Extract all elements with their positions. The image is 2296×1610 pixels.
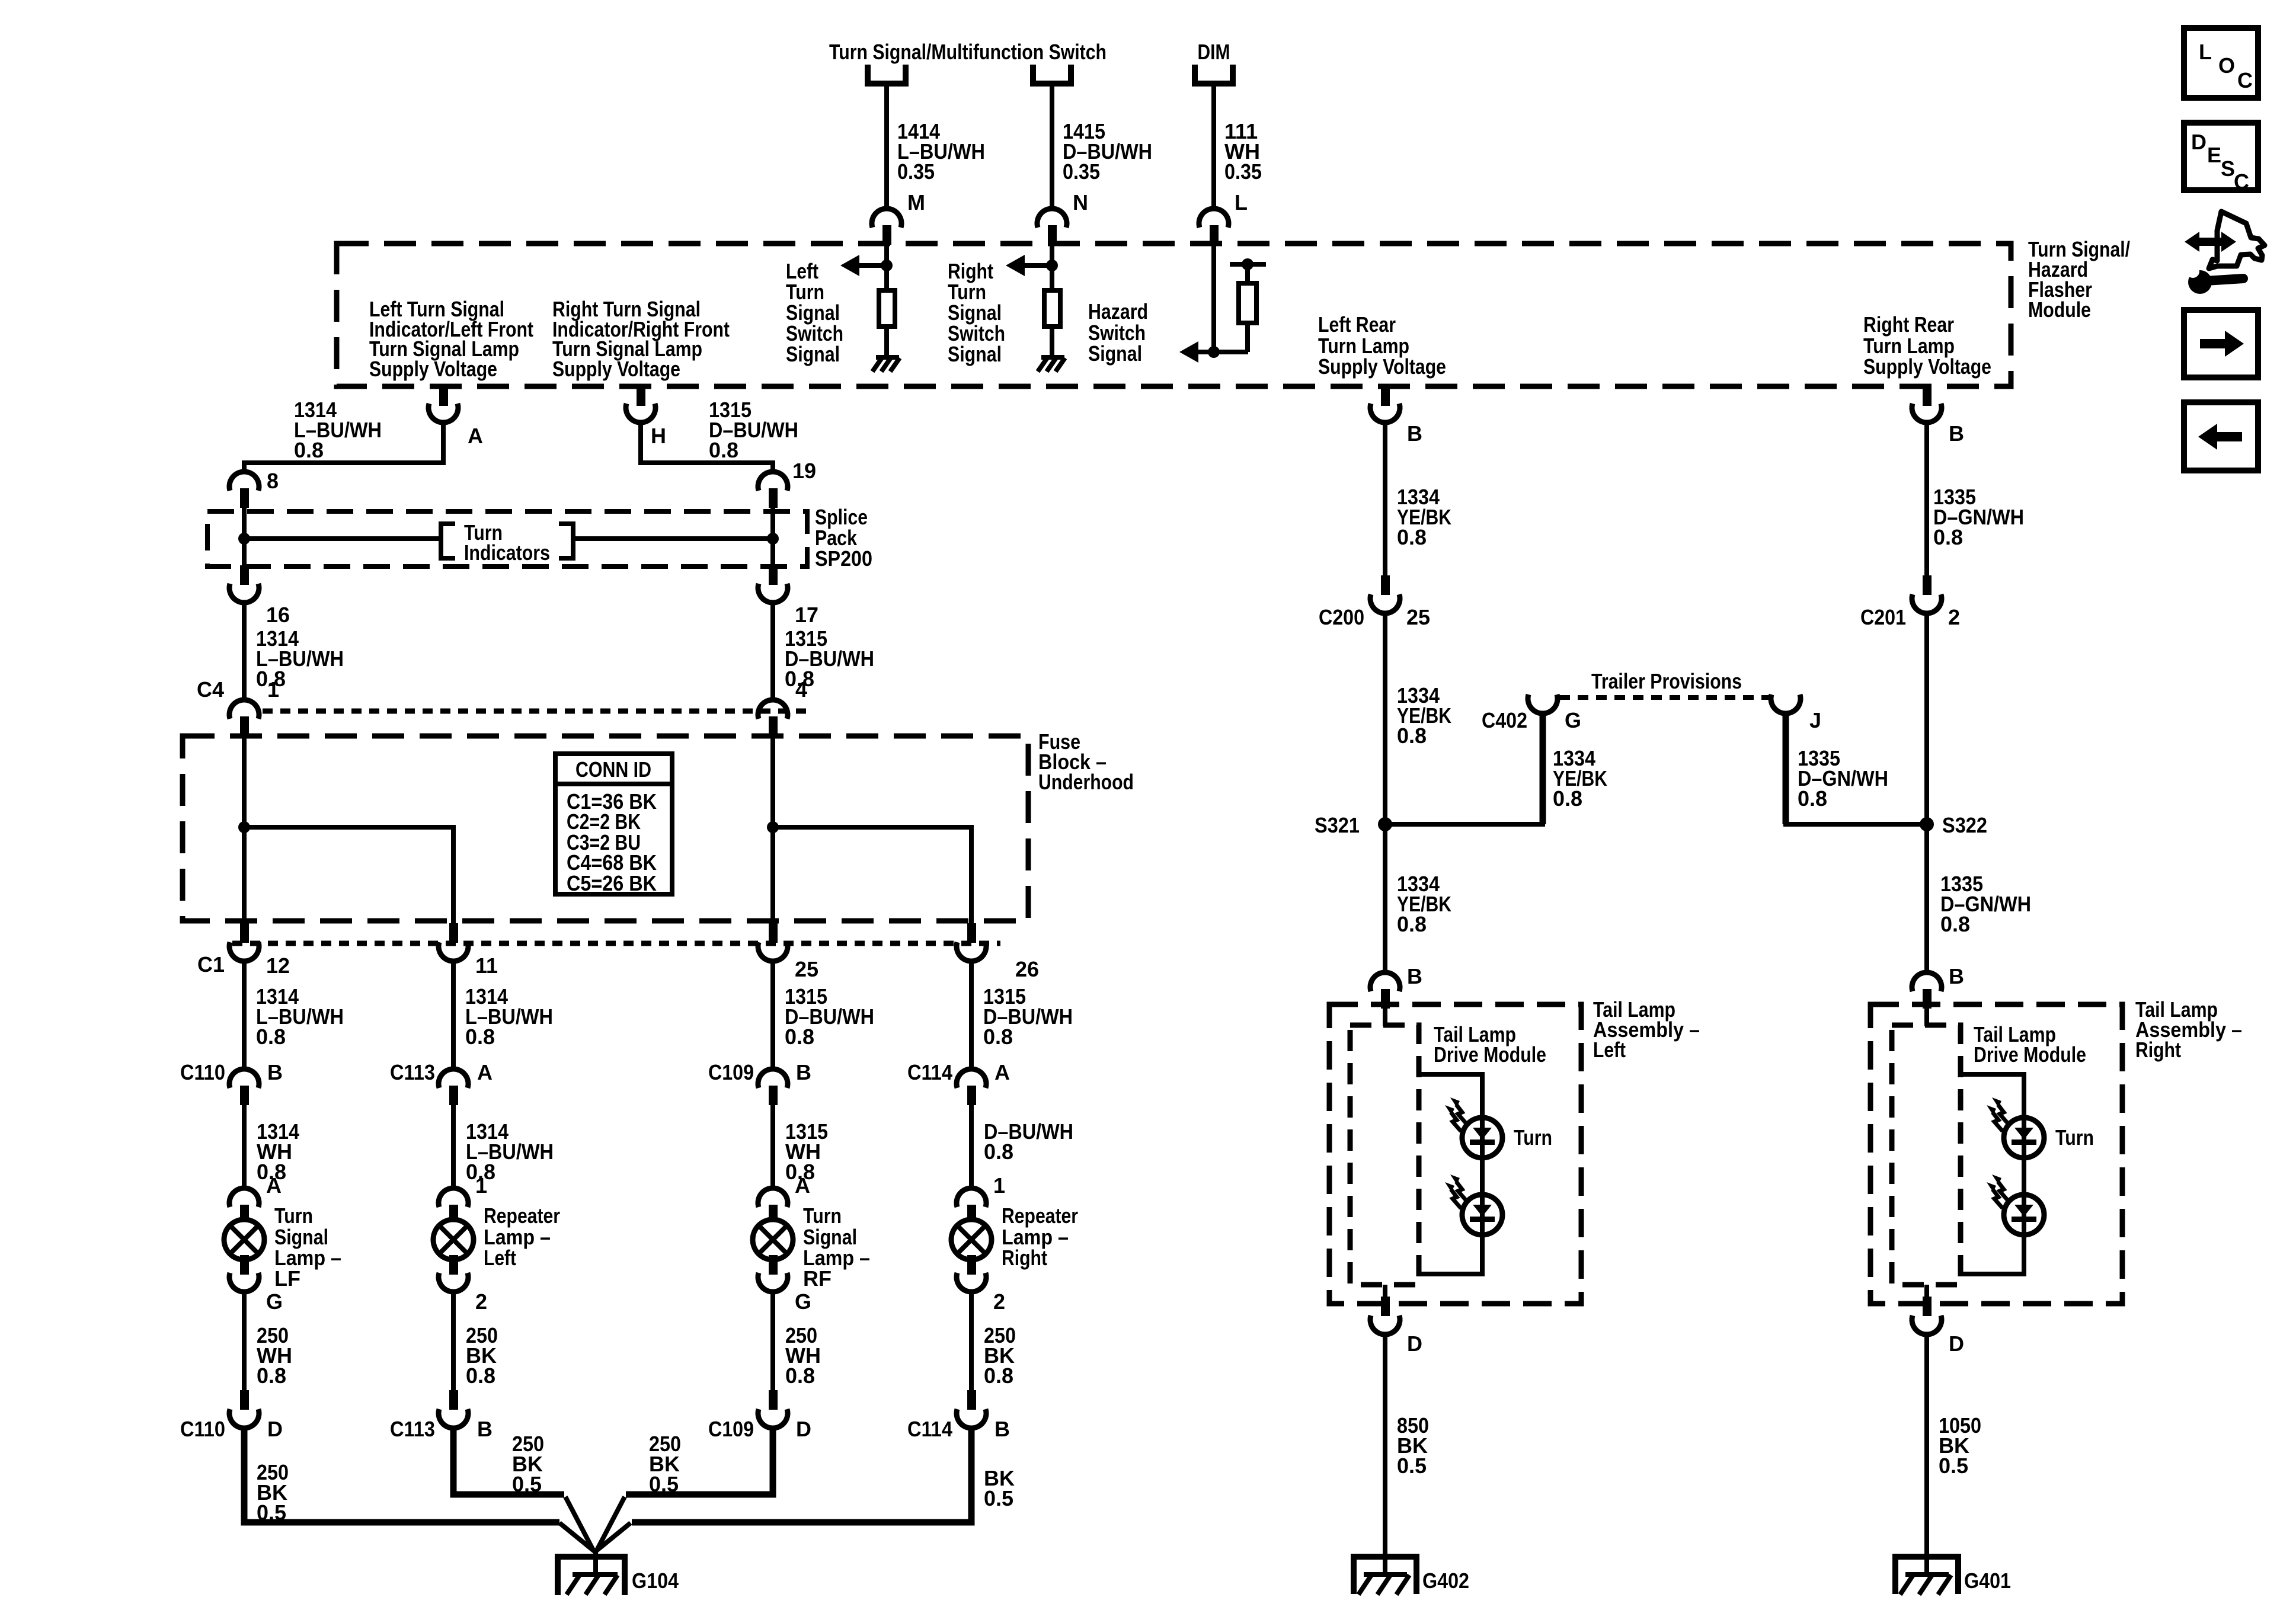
svg-text:Hazard: Hazard xyxy=(1088,299,1148,324)
svg-text:G: G xyxy=(1565,708,1581,732)
svg-text:D: D xyxy=(2191,130,2207,154)
node fuse left branch xyxy=(238,821,250,833)
svg-text:0.8: 0.8 xyxy=(257,1363,286,1388)
lamp connector (LF top) xyxy=(229,1188,259,1224)
wire junction to resistor xyxy=(1245,264,1250,283)
tail lamp assembly left box (dashed) xyxy=(1329,1004,1581,1304)
svg-text:A: A xyxy=(468,424,483,448)
node splice right xyxy=(767,533,779,545)
value label circuit 1314 L-BU/WH 0.8 xyxy=(294,398,382,462)
connector C4 pin 4 xyxy=(758,700,788,736)
svg-text:0.8: 0.8 xyxy=(1798,786,1827,811)
label Hazard Switch Signal xyxy=(1088,299,1148,366)
wire between LEDs (right) xyxy=(2022,1158,2026,1195)
icon DESC box xyxy=(2184,123,2258,194)
wire left into splice xyxy=(242,507,247,565)
icon arrow left box xyxy=(2184,402,2258,470)
svg-text:B: B xyxy=(1407,421,1422,446)
svg-text:Right: Right xyxy=(2135,1038,2181,1062)
wire C4 pin1 through fuse block to C1 pin 12 xyxy=(242,735,247,924)
value label circuit 1334 YE/BK 0.8 xyxy=(1397,485,1451,549)
svg-text:26: 26 xyxy=(1015,957,1039,981)
value label circuit 1334 YE/BK 0.8 below S321 xyxy=(1397,872,1451,936)
svg-text:C114: C114 xyxy=(907,1060,952,1084)
svg-text:Signal: Signal xyxy=(948,342,1002,366)
node S322 xyxy=(1920,817,1934,831)
wire 26 to C114 A xyxy=(969,959,974,1070)
svg-text:1: 1 xyxy=(475,1173,487,1198)
lamp connector (repeater left bottom) xyxy=(439,1255,468,1292)
LED turn lamp left 2 xyxy=(1445,1174,1502,1235)
wire 1335 to C201 xyxy=(1924,421,1929,577)
wire LED string back to drive module (right) xyxy=(1961,1235,2024,1274)
label Fuse Block - Underhood xyxy=(1038,729,1134,794)
svg-text:4: 4 xyxy=(795,677,807,702)
connector D (tail lamp left) xyxy=(1370,1297,1400,1334)
svg-text:A: A xyxy=(266,1173,282,1198)
wire trailer provisions (dashed) xyxy=(1559,695,1769,700)
label Turn Indicators xyxy=(464,520,550,565)
connector C114 pin B xyxy=(957,1390,986,1428)
connector C109 pin B xyxy=(758,1069,788,1105)
wire repeater left to C113 B xyxy=(451,1290,456,1391)
wire B into drive module (right) xyxy=(1924,1007,1929,1026)
svg-text:G: G xyxy=(266,1289,283,1314)
connector C1 pin 26 xyxy=(957,923,986,961)
svg-text:C114: C114 xyxy=(907,1417,952,1441)
connector row C1 dotted line xyxy=(232,941,1000,946)
connector C201 pin 2 xyxy=(1912,575,1942,613)
wire 1315 from H to connector 19 xyxy=(641,421,773,472)
connector B (module output, right rear) xyxy=(1912,386,1942,422)
svg-text:CONN ID: CONN ID xyxy=(575,757,651,782)
svg-text:O: O xyxy=(2218,53,2235,78)
svg-text:L: L xyxy=(2199,40,2212,64)
svg-text:DIM: DIM xyxy=(1198,40,1230,64)
svg-text:Module: Module xyxy=(2028,297,2091,322)
label Left Turn Signal Indicator/Left Front Turn Signal Lamp Supply Voltage xyxy=(369,297,533,381)
value label circuit 1314 L-BU/WH 0.8 xyxy=(466,1119,554,1184)
svg-text:Left Rear: Left Rear xyxy=(1318,312,1396,337)
svg-text:0.35: 0.35 xyxy=(897,159,935,184)
connector 16 xyxy=(229,565,259,603)
value label circuit 1314 WH 0.8 xyxy=(257,1119,299,1184)
svg-text:C: C xyxy=(2237,68,2253,92)
wire C109 D to ground G104 xyxy=(597,1426,773,1550)
fuse block box Underhood (dashed) xyxy=(183,736,1028,921)
svg-text:Turn Signal/Multifunction Swit: Turn Signal/Multifunction Switch xyxy=(829,40,1107,64)
svg-text:C4: C4 xyxy=(197,677,224,702)
svg-text:Repeater: Repeater xyxy=(1002,1204,1078,1228)
connector H (module output, right front) xyxy=(626,386,655,422)
svg-text:Trailer Provisions: Trailer Provisions xyxy=(1591,669,1742,693)
svg-text:0.8: 0.8 xyxy=(1933,525,1963,549)
connector C110 pin B xyxy=(229,1069,259,1105)
value label circuit 1314 L-BU/WH 0.8 xyxy=(465,984,553,1049)
connector C4 pin 1 xyxy=(229,700,259,736)
svg-text:0.8: 0.8 xyxy=(1553,786,1582,811)
svg-text:Drive Module: Drive Module xyxy=(1974,1042,2086,1067)
value label circuit D-BU/WH 0.8 xyxy=(984,1119,1073,1164)
value label circuit 1315 D-BU/WH 0.8 xyxy=(785,984,874,1049)
svg-text:0.5: 0.5 xyxy=(1939,1454,1968,1478)
value label circuit 1414 L-BU/WH 0.35 xyxy=(897,119,985,184)
svg-text:D: D xyxy=(267,1417,283,1441)
node junction hazard xyxy=(1208,346,1220,358)
wire drive module to LED string (right) xyxy=(1961,1074,2024,1118)
svg-text:C: C xyxy=(2234,169,2249,194)
wire J to S322 xyxy=(1783,712,1927,824)
node fuse right branch xyxy=(767,821,779,833)
svg-text:A: A xyxy=(994,1060,1010,1084)
svg-text:0.35: 0.35 xyxy=(1224,159,1262,184)
svg-text:E: E xyxy=(2207,143,2221,167)
icon wrench xyxy=(2180,265,2243,294)
svg-text:Repeater: Repeater xyxy=(484,1204,560,1228)
svg-text:C201: C201 xyxy=(1860,605,1906,629)
value label circuit 250 BK 0.5 (repeater left ground wire) xyxy=(512,1432,544,1496)
svg-text:0.8: 0.8 xyxy=(1397,724,1427,748)
svg-text:Signal: Signal xyxy=(786,342,840,366)
connector B (module output, left rear) xyxy=(1370,386,1400,422)
svg-text:2: 2 xyxy=(993,1289,1005,1314)
connector C114 pin A xyxy=(957,1069,986,1105)
value label circuit BK 0.5 (repeater right ground wire) xyxy=(984,1466,1015,1510)
wire branch to pin 11 xyxy=(244,827,453,924)
value label circuit 1315 D-BU/WH 0.8 xyxy=(785,626,874,691)
wire LED string back to drive module (left) xyxy=(1419,1235,1482,1274)
svg-text:0.8: 0.8 xyxy=(465,1025,495,1049)
wire repeater right to C114 B xyxy=(969,1290,974,1391)
svg-text:25: 25 xyxy=(795,957,818,981)
svg-text:0.8: 0.8 xyxy=(785,1363,815,1388)
connector M xyxy=(872,209,901,245)
wire 1414 from switch to connector M xyxy=(884,84,889,210)
svg-text:Right Rear: Right Rear xyxy=(1863,312,1954,337)
svg-text:S: S xyxy=(2221,156,2235,181)
connector 8 xyxy=(229,472,259,508)
wire resistor to ground xyxy=(1050,327,1054,358)
ground G402 xyxy=(1354,1547,1416,1595)
wire drive module to connector D (left) xyxy=(1383,1285,1387,1299)
ground G104 xyxy=(558,1548,625,1595)
label Repeater Lamp - Left xyxy=(484,1204,560,1270)
svg-text:B: B xyxy=(796,1060,811,1084)
connector L xyxy=(1199,209,1229,245)
value label circuit 1335 D-GN/WH 0.8 xyxy=(1798,746,1888,811)
svg-text:B: B xyxy=(1949,964,1964,988)
label Right Turn Signal Indicator/Right Front Turn Signal Lamp Supply Voltage xyxy=(552,297,730,381)
wire C114 B to ground G104 xyxy=(596,1426,971,1551)
icon vehicle outline xyxy=(2209,212,2265,268)
LED turn lamp left 1 xyxy=(1445,1097,1502,1158)
value label circuit 1335 D-GN/WH 0.8 below S322 xyxy=(1940,872,2031,936)
svg-text:2: 2 xyxy=(475,1289,487,1314)
svg-text:Turn: Turn xyxy=(803,1204,842,1228)
wire C110 B to lamp LF xyxy=(242,1104,247,1190)
wire S321 to C402 G xyxy=(1385,712,1545,824)
icon LOC box xyxy=(2184,28,2258,98)
value label circuit 250 WH 0.8 xyxy=(257,1323,292,1388)
ground (module internal, left) xyxy=(872,357,900,372)
svg-text:0.8: 0.8 xyxy=(1397,525,1427,549)
wire right into splice xyxy=(770,507,775,565)
label Tail Lamp Assembly - Left xyxy=(1593,997,1700,1062)
svg-text:G401: G401 xyxy=(1964,1569,2011,1593)
svg-text:C110: C110 xyxy=(180,1417,225,1441)
wire C109 B to lamp RF xyxy=(770,1104,775,1190)
node junction on wire M xyxy=(881,260,893,271)
svg-text:B: B xyxy=(1407,964,1422,988)
wire 17 to C4 pin 4 xyxy=(770,601,775,701)
svg-text:Signal: Signal xyxy=(1088,341,1142,366)
lamp Turn Signal Lamp RF xyxy=(753,1219,793,1260)
svg-text:2: 2 xyxy=(1948,605,1960,629)
connector C402 pin G (trailer provisions) xyxy=(1528,694,1558,713)
wire lamp LF to C110 D xyxy=(242,1290,247,1391)
svg-text:C109: C109 xyxy=(708,1417,754,1441)
svg-text:Drive Module: Drive Module xyxy=(1434,1042,1546,1067)
label Tail Lamp Drive Module xyxy=(1434,1022,1546,1067)
value label circuit 1315 WH 0.8 xyxy=(785,1119,828,1184)
value label circuit 1334 YE/BK 0.8 xyxy=(1553,746,1607,811)
svg-text:0.8: 0.8 xyxy=(984,1140,1013,1164)
svg-text:Turn: Turn xyxy=(274,1204,313,1228)
wire drive module to connector D (right) xyxy=(1924,1285,1929,1299)
connector C200 pin 25 xyxy=(1370,575,1400,613)
svg-text:G: G xyxy=(795,1289,811,1314)
wire arrow hazard switch signal xyxy=(1179,341,1248,363)
LED turn lamp right 1 xyxy=(1987,1097,2044,1158)
LED turn lamp right 2 xyxy=(1987,1174,2044,1235)
wire B into drive module xyxy=(1383,1007,1387,1026)
wire left turn signal switch signal (inside module) xyxy=(884,245,889,290)
svg-text:Underhood: Underhood xyxy=(1038,770,1134,794)
wire C200 to S321 to tail lamp xyxy=(1383,611,1387,974)
connector C113 pin B xyxy=(439,1390,468,1428)
lamp Repeater Lamp Left xyxy=(433,1219,474,1260)
svg-text:Supply Voltage: Supply Voltage xyxy=(552,357,680,381)
svg-text:LF: LF xyxy=(274,1266,300,1291)
svg-text:Right: Right xyxy=(1002,1246,1047,1270)
wire 1334 to C200 xyxy=(1383,421,1387,577)
module box: Turn Signal/Hazard Flasher Module (dashed) xyxy=(337,244,2011,386)
wire 1314 from A to connector 8 xyxy=(244,421,443,472)
label Repeater Lamp - Right xyxy=(1002,1204,1078,1270)
svg-text:RF: RF xyxy=(803,1266,832,1291)
wire C110 D to ground G104 xyxy=(244,1426,594,1551)
value label circuit 1415 D-BU/WH 0.35 xyxy=(1063,119,1152,184)
label Right Turn Signal Switch Signal xyxy=(948,259,1005,366)
tail lamp assembly right box (dashed) xyxy=(1870,1004,2122,1304)
ground G401 xyxy=(1895,1547,1958,1595)
connector 17 xyxy=(758,565,788,603)
node S321 xyxy=(1378,817,1392,831)
label Splice Pack SP200 xyxy=(815,505,872,571)
lamp connector (LF bottom) xyxy=(229,1255,259,1292)
lamp Turn Signal Lamp LF xyxy=(224,1219,264,1260)
connector row C4 dotted line xyxy=(263,709,806,714)
wire resistor to ground xyxy=(884,327,889,358)
wire 1050 to ground G401 xyxy=(1924,1332,1929,1549)
svg-text:0.8: 0.8 xyxy=(983,1025,1013,1049)
svg-text:H: H xyxy=(651,424,666,448)
value label circuit 111 WH 0.35 xyxy=(1224,119,1262,184)
wire 16 to C4 pin 1 xyxy=(242,601,247,701)
svg-text:C113: C113 xyxy=(390,1060,435,1084)
label Tail Lamp Drive Module xyxy=(1974,1022,2086,1067)
svg-text:C200: C200 xyxy=(1319,605,1364,629)
wire 25 to C109 B xyxy=(770,959,775,1070)
label Left Turn Signal Switch Signal xyxy=(786,259,843,366)
svg-text:Supply Voltage: Supply Voltage xyxy=(1863,354,1991,379)
wire 1415 from switch to connector N xyxy=(1050,84,1054,210)
splice pack box SP200 (dashed) xyxy=(207,511,807,566)
value label circuit 1335 D-GN/WH 0.8 xyxy=(1933,485,2024,549)
lamp connector (repeater left top) xyxy=(439,1188,468,1224)
wire 11 to C113 A xyxy=(451,959,456,1070)
svg-text:0.8: 0.8 xyxy=(256,1025,286,1049)
connector C1 pin 25 xyxy=(758,923,788,961)
svg-text:C5=26 BK: C5=26 BK xyxy=(567,871,657,895)
svg-text:L: L xyxy=(1235,190,1248,215)
svg-text:1: 1 xyxy=(267,677,279,702)
svg-text:0.8: 0.8 xyxy=(1940,912,1970,936)
svg-text:C1: C1 xyxy=(197,952,225,977)
icon arrow right box xyxy=(2184,310,2258,377)
connector C1 pin 12 xyxy=(229,923,259,961)
resistor right turn xyxy=(1044,290,1060,327)
ground (module internal, right) xyxy=(1038,357,1065,372)
svg-text:0.8: 0.8 xyxy=(294,438,324,462)
connector C110 pin D xyxy=(229,1390,259,1428)
svg-text:D: D xyxy=(796,1417,811,1441)
svg-text:B: B xyxy=(267,1060,283,1084)
svg-text:0.5: 0.5 xyxy=(984,1486,1013,1510)
svg-text:B: B xyxy=(1949,421,1964,446)
svg-text:A: A xyxy=(795,1173,810,1198)
svg-text:25: 25 xyxy=(1406,605,1430,629)
component bracket: turn signal switch pin M xyxy=(868,65,906,84)
value label circuit 1315 D-BU/WH 0.8 xyxy=(983,984,1073,1049)
label Turn Signal Lamp - LF xyxy=(274,1204,341,1291)
svg-text:0.8: 0.8 xyxy=(466,1363,495,1388)
node splice left xyxy=(238,533,250,545)
component bracket: DIM pin xyxy=(1195,65,1233,84)
svg-text:Turn: Turn xyxy=(1514,1125,1552,1150)
svg-text:C402: C402 xyxy=(1482,708,1527,732)
wire C114 A to repeater lamp right xyxy=(969,1104,974,1190)
connector B (tail lamp assembly left) xyxy=(1370,972,1400,1009)
svg-text:S321: S321 xyxy=(1315,813,1360,837)
lamp connector (repeater right bottom) xyxy=(957,1255,986,1292)
svg-text:19: 19 xyxy=(792,459,816,483)
svg-text:C110: C110 xyxy=(180,1060,225,1084)
value label circuit 250 BK 0.8 xyxy=(984,1323,1016,1388)
value label circuit 250 BK 0.5 (RF ground wire) xyxy=(649,1432,681,1496)
wire hazard switch signal (from DIM, inside module) xyxy=(1211,245,1216,352)
svg-text:B: B xyxy=(477,1417,493,1441)
tail lamp drive module right box (dashed) xyxy=(1892,1025,1961,1285)
connector C113 pin A xyxy=(439,1069,468,1105)
svg-text:0.8: 0.8 xyxy=(785,1025,814,1049)
wire 850 to ground G402 xyxy=(1383,1332,1387,1549)
svg-text:Left: Left xyxy=(484,1246,516,1270)
wire C113 A to repeater lamp left xyxy=(451,1104,456,1190)
wire between LEDs xyxy=(1480,1158,1485,1195)
svg-text:Supply Voltage: Supply Voltage xyxy=(1318,354,1446,379)
connector 19 xyxy=(758,472,788,508)
svg-text:SP200: SP200 xyxy=(815,546,872,571)
connector C1 pin 11 xyxy=(439,923,468,961)
module label Turn Signal/Hazard Flasher Module xyxy=(2028,237,2130,322)
svg-text:Left: Left xyxy=(1593,1038,1626,1062)
connector C109 pin D xyxy=(758,1390,788,1428)
lamp Repeater Lamp Right xyxy=(951,1219,992,1260)
svg-text:D: D xyxy=(1407,1331,1422,1356)
lamp connector (RF bottom) xyxy=(758,1255,788,1292)
svg-text:D: D xyxy=(1949,1331,1964,1356)
value label circuit 1050 BK 0.5 xyxy=(1939,1413,1981,1478)
svg-text:G402: G402 xyxy=(1422,1569,1469,1593)
icon diagnostic double arrow xyxy=(2185,232,2236,252)
connector B (tail lamp assembly right) xyxy=(1912,972,1942,1009)
svg-text:G104: G104 xyxy=(632,1569,679,1593)
resistor hazard xyxy=(1239,283,1256,323)
connector A (module output, left front) xyxy=(428,386,458,422)
svg-text:0.5: 0.5 xyxy=(1397,1454,1427,1478)
resistor left turn xyxy=(879,290,895,327)
value label circuit 1314 L-BU/WH 0.8 xyxy=(256,984,344,1049)
wire C4 pin4 through fuse block to C1 pin 25 xyxy=(770,735,775,924)
connector N xyxy=(1037,209,1067,245)
value label circuit 250 WH 0.8 xyxy=(785,1323,821,1388)
svg-text:S322: S322 xyxy=(1942,813,1987,837)
bracket right for Turn Indicators label xyxy=(559,524,573,558)
node junction on wire N xyxy=(1046,260,1058,271)
lamp connector (repeater right top) xyxy=(957,1188,986,1224)
wire right turn signal switch signal (inside module) xyxy=(1050,245,1054,290)
svg-text:12: 12 xyxy=(266,953,290,978)
svg-text:M: M xyxy=(907,190,925,215)
wire lamp RF to C109 D xyxy=(770,1290,775,1391)
value label circuit 1334 YE/BK 0.8 xyxy=(1397,683,1451,748)
svg-text:17: 17 xyxy=(795,603,818,627)
connector pin J (trailer provisions) xyxy=(1771,694,1801,713)
value label circuit 250 BK 0.5 (LF ground wire) xyxy=(257,1460,289,1525)
svg-text:8: 8 xyxy=(267,469,279,493)
svg-text:0.8: 0.8 xyxy=(709,438,738,462)
svg-text:N: N xyxy=(1073,190,1088,215)
value label circuit 250 BK 0.8 xyxy=(466,1323,498,1388)
value label circuit 850 BK 0.5 xyxy=(1397,1413,1429,1478)
bracket left for Turn Indicators label xyxy=(441,524,455,558)
connector D (tail lamp right) xyxy=(1912,1297,1942,1334)
svg-text:16: 16 xyxy=(266,603,290,627)
value label circuit 1314 L-BU/WH 0.8 xyxy=(256,626,344,691)
component bracket: turn signal switch pin N xyxy=(1033,65,1071,84)
tail lamp drive module left box (dashed) xyxy=(1350,1025,1419,1285)
label Left Rear Turn Lamp Supply Voltage xyxy=(1318,312,1446,379)
svg-text:C113: C113 xyxy=(390,1417,435,1441)
svg-text:C109: C109 xyxy=(708,1060,754,1084)
wire branch to pin 26 xyxy=(773,827,971,924)
svg-text:Supply Voltage: Supply Voltage xyxy=(369,357,497,381)
svg-text:J: J xyxy=(1809,708,1821,732)
wire 111 from DIM to connector L xyxy=(1211,84,1216,210)
wire drive module to LED string (left) xyxy=(1419,1074,1482,1118)
wire arrow left turn signal switch signal xyxy=(840,255,887,276)
